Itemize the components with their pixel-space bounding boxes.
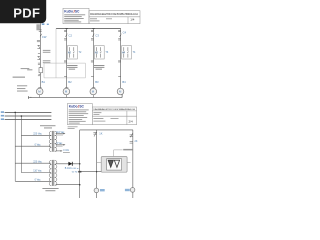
transformer T2 right coil [55,160,57,186]
lamp P3 [130,188,135,193]
svg-text:B4: B4 [122,80,126,84]
T1 secondary 0Vdc [56,150,61,152]
tick above motor M1 [38,86,41,88]
tap wire 2 [20,116,22,173]
svg-text:1/4: 1/4 [130,17,135,21]
logo sheet2 [69,105,89,124]
transformer T1 right coil [55,131,57,151]
tick above motor M2 [65,86,68,88]
cable mark [13,76,25,78]
node dot S [21,115,23,117]
callout label [123,149,133,151]
cable entry ticks [36,25,40,30]
tick [118,76,121,78]
svg-text:2K: 2K [135,140,138,143]
tap wire 1 [14,112,16,181]
PDF badge [0,0,46,23]
title text sheet1 [90,13,138,21]
box right stub [127,161,131,163]
svg-text:0 Vdc: 0 Vdc [63,150,70,152]
svg-text:B2: B2 [68,80,72,84]
branch C3 vertical [93,29,95,89]
soft starter U1 box [101,157,127,173]
supply column Q0 vertical [39,24,41,89]
T1 primary wire 0 [15,145,51,147]
svg-text:60 Hz: 60 Hz [72,171,78,173]
svg-text:B1: B1 [42,80,46,84]
tick [64,76,67,78]
contactor K2 box [68,46,78,59]
title block sheet1 [63,8,140,23]
tick [38,52,40,54]
svg-text:KuDoJSC: KuDoJSC [69,105,85,109]
transformer T1 core [51,131,53,152]
soft starter U1 panel [107,159,122,170]
svg-text:C2: C2 [69,34,73,38]
tick [38,73,40,75]
svg-text:220 Vac: 220 Vac [33,133,42,136]
contactor K3 contacts [96,47,102,57]
motor M4 [117,88,124,95]
svg-text:0 Vac: 0 Vac [35,178,42,181]
lamp P2 [94,188,99,193]
svg-text:0 Vac: 0 Vac [57,143,64,145]
switch S2 [93,132,96,137]
svg-text:FW: FW [42,35,47,39]
T2 primary wire 110 [21,172,51,174]
motor M3 [90,88,97,95]
note below block2 [68,125,78,128]
label SECC GERAL [43,50,51,53]
svg-text:B3: B3 [95,80,99,84]
node dot badge corner [47,24,49,25]
wire V3 [132,130,134,198]
meter box [39,68,42,73]
tick [38,62,40,64]
T1 primary wire 220 [21,134,51,136]
svg-text:C3: C3 [95,34,99,38]
ticks below K4 [118,61,121,62]
breaker DISJ GERAL [37,56,40,59]
svg-text:220 Vac: 220 Vac [33,160,42,163]
svg-text:PDF: PDF [13,5,40,20]
breaker Q2 [64,30,67,40]
T1 secondary 110 [56,133,64,135]
enclosure left edge [55,29,57,78]
node tick C2 [66,28,68,30]
wire V2 [96,130,98,198]
motor M1 [36,88,43,95]
wire V1 [79,130,81,198]
branch C4 vertical [120,29,122,89]
node square V1 [78,171,81,173]
BT wire [56,184,80,186]
branch C2 vertical [66,29,68,89]
svg-text:1K: 1K [99,131,102,135]
earth bus riser [121,94,123,97]
callout wire [114,150,123,157]
label MOD DE ACIONA b3 [94,65,104,70]
node dot diode wire [79,163,81,165]
contactor K4 contacts [123,47,129,57]
label DISJ GERAL [43,60,51,63]
label Transformador [42,187,58,190]
title text sheet2 [93,108,135,123]
svg-text:KuDoJSC: KuDoJSC [64,10,80,14]
feeder wire top [80,129,133,131]
tag P3 [125,189,130,191]
ticks below K2 [64,61,67,62]
svg-text:DIAGRAMA ELETRICO DE BOMBA HID: DIAGRAMA ELETRICO DE BOMBA HIDRAULICA [90,13,138,16]
label meter [27,68,32,71]
transformer T2 left coil [49,160,51,186]
phase bus S [5,115,52,117]
contactor K2 contacts [69,47,75,57]
phase bus R [5,111,52,113]
svg-text:110 Vac: 110 Vac [56,132,65,134]
logo sheet1 [64,10,85,23]
fuse F0 [39,30,42,37]
label LIG TERRA [17,85,28,91]
transformer T1 left coil [49,131,51,151]
contactor K4 box [122,46,132,59]
svg-text:C4: C4 [123,31,127,35]
node tick C3 [92,28,94,30]
svg-text:0 Vac: 0 Vac [35,143,42,146]
enclosure box [44,63,85,78]
svg-text:DIAGRAMA ELETRICO DE BOMBA HID: DIAGRAMA ELETRICO DE BOMBA HIDRAULICA [93,108,135,111]
T2 primary wire 220 [15,162,51,164]
T1 secondary 0 [56,144,64,146]
node dot V2 [96,171,97,172]
motor M2 [63,88,70,95]
node dot R [14,112,16,114]
label MOD DE ACIONA b2 [67,65,77,70]
top bus L1 [56,28,121,30]
svg-text:2/4: 2/4 [129,119,134,123]
switch ticks Q0 [37,40,40,41]
earth bus start mark [28,96,30,99]
T2 primary wire 0 [15,180,51,182]
node dot BT [79,184,81,186]
wire M1 to PE [39,95,41,98]
switch S3 [130,133,133,143]
tag P2 [100,189,105,191]
soft starter triangle left [108,160,113,167]
diode wire [56,163,80,165]
earth bus PE [29,96,123,98]
transformer T2 core [51,160,53,186]
ticks below K3 [91,61,94,62]
phase bus T [5,119,52,121]
junction wire to box [80,171,102,173]
disconnect SECC GERAL [37,45,40,48]
breaker Q3 [91,30,94,40]
node label W1 [42,23,45,25]
contactor K3 box [94,46,104,59]
soft starter triangle right [114,160,119,167]
diode D1 [68,162,72,166]
breaker Q4 [118,30,121,40]
label T [1,118,4,120]
box left stub [97,161,101,163]
svg-text:1.000 m: 1.000 m [71,168,79,170]
title block sheet2 [67,104,136,125]
label R [1,111,4,113]
svg-text:110 Vac: 110 Vac [33,170,42,173]
tick above motor M3 [92,86,95,88]
margin note [21,68,30,69]
label S [1,115,4,117]
label Auto Condicionador [40,124,56,127]
tick [91,76,94,78]
